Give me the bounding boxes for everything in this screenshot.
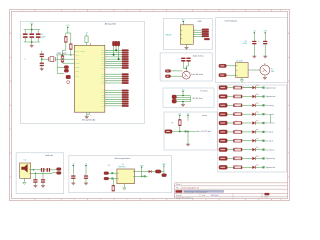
wire pin	[105, 92, 122, 94]
wire	[163, 166, 165, 174]
svg-text:100nF: 100nF	[41, 37, 45, 39]
capacitor C3	[24, 30, 26, 34]
wire pin	[105, 67, 122, 69]
junction	[113, 54, 115, 56]
svg-text:4: 4	[100, 199, 101, 201]
connector P1a	[165, 70, 170, 73]
LED D2	[252, 95, 255, 98]
wire	[242, 87, 252, 89]
node label Clignotant arg	[262, 157, 264, 159]
svg-text:6: 6	[153, 10, 154, 12]
wire	[70, 33, 72, 44]
wire	[242, 140, 252, 142]
capacitor C19	[42, 172, 44, 179]
wire	[255, 157, 262, 159]
wire	[226, 74, 235, 76]
wire	[171, 70, 183, 72]
wire	[242, 157, 252, 159]
ground	[181, 103, 185, 105]
wire	[44, 169, 46, 171]
wire	[109, 178, 117, 180]
node label Feu avant g	[262, 104, 264, 106]
svg-text:TOSC2: TOSC2	[75, 67, 79, 69]
resistor R9	[179, 120, 182, 126]
wire	[227, 122, 233, 124]
ground	[85, 116, 89, 118]
svg-text:11: 11	[280, 10, 282, 12]
ic U5 USB interface	[180, 25, 193, 45]
ground	[71, 182, 75, 184]
connector J2	[219, 74, 226, 77]
pin tick	[133, 171, 135, 173]
node label Feu arriere d	[262, 149, 264, 151]
wire pin	[105, 49, 122, 51]
capacitor C17	[47, 168, 48, 172]
wire	[113, 46, 115, 55]
rev mark	[265, 193, 270, 195]
node label Feu arriere g	[262, 122, 264, 124]
svg-text:PH3: PH3	[101, 59, 104, 61]
svg-text:5v/3v Regulator: 5v/3v Regulator	[225, 19, 238, 22]
resistor R12	[234, 95, 242, 98]
wire	[123, 184, 125, 188]
wire	[66, 32, 71, 34]
junction	[115, 49, 117, 51]
wire pin	[105, 60, 122, 62]
sheet box port serie	[163, 88, 214, 108]
connector P3	[219, 86, 227, 90]
svg-text:Atmega2560: Atmega2560	[105, 23, 117, 26]
junction	[31, 29, 33, 31]
wire	[255, 166, 262, 168]
resistor R17	[234, 139, 242, 142]
wire usb data	[193, 29, 202, 31]
wire	[242, 113, 252, 115]
junction	[182, 95, 183, 96]
LED D1	[252, 86, 255, 89]
wire	[264, 44, 266, 56]
resistor R2	[65, 37, 68, 43]
svg-text:10: 10	[258, 199, 260, 201]
LED D3	[252, 104, 255, 107]
title block dividers	[199, 193, 201, 197]
wire	[31, 25, 33, 29]
wire pin	[105, 101, 122, 103]
capacitor C2	[41, 59, 43, 62]
regulator U2	[236, 63, 248, 78]
pin tick	[117, 178, 119, 180]
sheet box Atmega2560	[20, 21, 144, 123]
wire	[227, 166, 233, 168]
svg-text:R9: R9	[172, 122, 174, 124]
junction	[186, 68, 187, 69]
capacitor C4	[31, 30, 33, 34]
node label Feu stop d	[262, 140, 264, 142]
wire pin	[105, 94, 122, 96]
pin tick	[236, 65, 238, 67]
capacitor C1	[41, 51, 43, 54]
wire pin	[105, 75, 122, 77]
svg-text:2: 2	[48, 199, 49, 201]
svg-text:PB5: PB5	[101, 74, 104, 76]
node square	[111, 178, 113, 180]
svg-text:PE1: PE1	[101, 52, 104, 54]
connector J7	[172, 95, 176, 99]
wire pin	[105, 56, 122, 58]
wire	[255, 149, 262, 151]
node label Clignotant avg	[262, 87, 264, 89]
svg-text:U2 LD1117: U2 LD1117	[236, 60, 243, 62]
svg-text:PH6: PH6	[101, 65, 104, 67]
connector P11	[219, 157, 227, 161]
svg-text:Schematique voiture groupe 7: Schematique voiture groupe 7	[184, 190, 208, 193]
ground	[186, 143, 190, 145]
wire	[35, 172, 52, 174]
svg-text:PB6: PB6	[101, 76, 104, 78]
resistor R13	[234, 104, 242, 107]
ground	[263, 55, 267, 57]
wire pin	[105, 58, 122, 60]
resistor R8	[112, 179, 114, 186]
wire	[172, 131, 196, 133]
svg-text:2: 2	[48, 10, 49, 12]
sheet box audio side	[16, 153, 64, 194]
connector P4	[219, 95, 227, 99]
wire usb data	[193, 36, 202, 38]
svg-text:10: 10	[258, 10, 260, 12]
connector P1b	[165, 75, 170, 78]
pin header JP1	[122, 50, 129, 52]
svg-text:PWR: PWR	[271, 71, 274, 73]
ground	[240, 80, 243, 82]
wire	[226, 65, 235, 67]
svg-text:Solar charge batterie: Solar charge batterie	[115, 157, 131, 160]
svg-text:TOSC1: TOSC1	[75, 63, 79, 65]
capacitor C13	[263, 41, 267, 42]
capacitor C18	[34, 173, 36, 179]
wire serial	[176, 101, 190, 103]
resistor R16	[234, 131, 242, 134]
junction	[70, 54, 71, 55]
frame column ticks and numbers	[34, 10, 36, 12]
pin tick	[181, 38, 183, 40]
microcontroller U1 ATmega2560	[74, 45, 105, 112]
svg-text:2016-05-06: 2016-05-06	[211, 195, 219, 197]
node label Feu stop g	[262, 131, 264, 133]
barrel jack P1	[260, 65, 270, 75]
ground	[185, 46, 189, 48]
wire	[255, 87, 262, 89]
switch SW1	[66, 75, 70, 78]
title text	[183, 190, 224, 193]
sheet box telecommande	[164, 112, 217, 150]
svg-text:5: 5	[127, 199, 128, 201]
ground	[123, 188, 126, 190]
wire	[255, 113, 262, 115]
pin tick	[29, 169, 31, 171]
wire usb data	[193, 34, 202, 36]
junction	[179, 131, 181, 133]
wire	[72, 166, 74, 176]
resistor R18	[234, 148, 242, 151]
svg-text:PJ1: PJ1	[102, 83, 104, 85]
svg-text:1: 1	[22, 10, 23, 12]
crystal Y1	[48, 57, 50, 61]
pin tick	[117, 172, 119, 174]
connector shield pin	[204, 38, 209, 40]
svg-text:PWRFL_RESET: PWRFL_RESET	[75, 50, 84, 52]
ground	[30, 44, 34, 46]
sheet box USB	[163, 18, 212, 49]
wire	[64, 58, 75, 60]
wire	[42, 58, 49, 60]
wire bottom rail	[24, 41, 40, 43]
pin tick	[181, 34, 183, 36]
sheet frame inner border	[12, 12, 288, 199]
capacitor C12	[252, 41, 256, 42]
wire	[242, 104, 252, 106]
svg-text:8: 8	[205, 10, 206, 12]
svg-text:8: 8	[205, 199, 206, 201]
resistor R3	[61, 56, 64, 62]
ground	[84, 182, 88, 184]
svg-text:9: 9	[232, 10, 233, 12]
LED D6	[252, 130, 255, 133]
wire	[187, 132, 189, 144]
audio jack LS2	[182, 71, 190, 79]
junction	[187, 131, 189, 133]
wire usb data	[193, 31, 202, 33]
wire	[182, 92, 184, 96]
connector P12	[219, 165, 227, 169]
svg-text:LS1: LS1	[24, 159, 27, 161]
resistor R20	[234, 166, 242, 169]
wire	[67, 28, 69, 33]
svg-text:X1: X1	[24, 59, 26, 61]
wire	[161, 171, 164, 173]
svg-text:PB4: PB4	[101, 67, 104, 69]
junction	[41, 58, 43, 60]
node label Clignotant avd	[262, 95, 264, 97]
frame row ticks and letters	[10, 56, 12, 58]
wire reset net	[56, 54, 74, 56]
pin stub	[264, 63, 266, 65]
wire	[255, 131, 262, 133]
wire	[242, 122, 252, 124]
wire	[255, 140, 262, 142]
connector P8	[219, 130, 227, 134]
wire	[264, 33, 266, 41]
resistor R11	[234, 86, 242, 89]
wire	[179, 126, 181, 132]
wire	[186, 44, 188, 47]
svg-text:MCP73871: MCP73871	[119, 166, 126, 168]
node square	[111, 172, 113, 174]
junction	[33, 169, 34, 170]
svg-text:PJ0: PJ0	[102, 80, 104, 82]
wire	[179, 116, 181, 120]
wire link rows	[270, 114, 272, 123]
pin tick	[29, 172, 31, 174]
svg-text:3: 3	[74, 199, 75, 201]
wire	[85, 179, 87, 183]
wire	[182, 102, 184, 105]
wire top rail	[24, 29, 40, 31]
junction	[141, 176, 142, 177]
wire	[248, 69, 260, 71]
wire pin	[105, 80, 122, 82]
connector P7	[219, 121, 227, 125]
wire pin	[105, 82, 122, 84]
resistor R1	[70, 44, 73, 50]
resistor R19	[234, 157, 242, 160]
wire	[227, 87, 233, 89]
speaker LS1	[20, 163, 31, 178]
connector REC1	[165, 130, 172, 133]
wire	[70, 49, 72, 55]
svg-text:1: 1	[22, 199, 23, 201]
wire	[55, 58, 61, 60]
svg-text:P1: P1	[271, 69, 273, 71]
connector J6	[202, 29, 209, 31]
capacitor C8	[181, 58, 185, 59]
wire pin	[105, 65, 122, 67]
wire pin	[105, 78, 122, 80]
wire pin	[105, 96, 122, 98]
resistor R14	[234, 113, 242, 116]
svg-text:9: 9	[232, 199, 233, 201]
connector J3	[64, 66, 68, 69]
svg-text:C12: C12	[244, 41, 247, 43]
capacitor C14	[71, 175, 75, 176]
svg-text:PB7: PB7	[101, 78, 104, 80]
wire	[253, 44, 255, 56]
wire pin	[105, 52, 122, 54]
LED D5	[252, 121, 255, 124]
resistor R15	[234, 122, 242, 125]
connector J5 (3 pin)	[112, 41, 114, 46]
wire pin	[105, 103, 122, 105]
junction	[31, 41, 33, 43]
wire pin	[105, 90, 122, 92]
wire	[31, 172, 36, 174]
connector P9	[219, 139, 227, 143]
svg-text:4: 4	[100, 10, 101, 12]
diode D2	[134, 171, 148, 173]
svg-text:6: 6	[153, 199, 154, 201]
wire	[72, 179, 74, 183]
wire	[65, 42, 67, 50]
wire	[255, 122, 262, 124]
ground	[41, 184, 45, 186]
capacitor C15	[84, 175, 88, 176]
wire	[187, 116, 189, 121]
svg-text:arduinomegafullplan.sch: arduinomegafullplan.sch	[181, 187, 199, 190]
title logo	[176, 190, 183, 193]
wire	[227, 104, 233, 106]
wire pin	[105, 63, 122, 65]
wire	[242, 96, 252, 98]
capacitor C5	[37, 30, 39, 34]
wire serial	[176, 99, 190, 101]
wire	[227, 113, 233, 115]
wire	[255, 96, 262, 98]
wire serial	[176, 97, 190, 99]
wire	[85, 166, 87, 176]
charger U4	[117, 169, 134, 184]
wire pin	[105, 54, 122, 56]
wire	[255, 104, 262, 106]
wire	[227, 96, 233, 98]
svg-text:Sound_Mid_volume: Sound_Mid_volume	[191, 74, 203, 76]
wire	[242, 131, 252, 133]
wire	[182, 22, 184, 25]
connector J8	[57, 168, 61, 171]
pin tick	[181, 29, 183, 31]
svg-text:TX0_RX0_Serial: TX0_RX0_Serial	[192, 98, 203, 100]
LED D7	[252, 139, 255, 142]
ground	[263, 76, 267, 78]
junction	[62, 59, 63, 60]
svg-text:PE4: PE4	[101, 54, 104, 56]
svg-text:PH4: PH4	[101, 61, 104, 63]
pin header JP3	[122, 90, 129, 92]
sheet box feux	[218, 85, 287, 172]
wire	[227, 157, 233, 159]
junction	[118, 58, 120, 60]
connector P5	[219, 103, 227, 107]
wire	[50, 169, 57, 171]
svg-text:3: 3	[74, 10, 75, 12]
wire serial	[176, 95, 190, 97]
wire	[115, 46, 117, 51]
wire	[109, 172, 117, 174]
svg-text:7: 7	[179, 10, 180, 12]
node label Clignotant ard	[262, 166, 264, 168]
sheet box solar charge	[69, 156, 172, 193]
connector J9	[104, 172, 109, 175]
svg-text:7: 7	[179, 199, 180, 201]
pin tick	[236, 74, 238, 76]
wire	[134, 175, 147, 177]
junction	[35, 173, 36, 174]
wire pin	[105, 98, 122, 100]
svg-text:USB-1BT: USB-1BT	[166, 35, 172, 37]
wire	[31, 42, 33, 45]
fuse F1	[151, 171, 155, 173]
node square	[185, 130, 187, 132]
wire	[62, 49, 66, 51]
wire	[31, 169, 41, 171]
ground	[40, 68, 44, 70]
LED D4	[252, 113, 255, 116]
svg-text:PE5: PE5	[101, 56, 104, 58]
wire	[264, 75, 266, 77]
wire	[57, 72, 64, 74]
svg-text:IRrecv_OUT_INT_Signal: IRrecv_OUT_INT_Signal	[197, 131, 212, 133]
sheet box regulator	[216, 17, 288, 82]
capacitor C16	[41, 168, 42, 172]
LED D10	[252, 166, 255, 169]
connector J10	[104, 177, 109, 180]
junction	[62, 54, 63, 55]
wire	[227, 140, 233, 142]
LED D9	[252, 157, 255, 160]
LED D8	[252, 148, 255, 151]
capacitor C9	[186, 58, 190, 59]
node square	[144, 175, 146, 177]
pin tick	[133, 175, 135, 177]
